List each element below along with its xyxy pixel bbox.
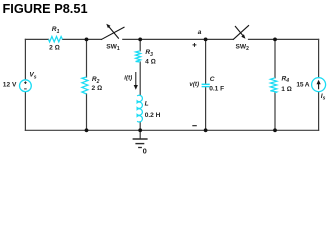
svg-text:0.1 F: 0.1 F — [209, 86, 224, 93]
svg-text:15 A: 15 A — [296, 82, 309, 89]
svg-text:12 V: 12 V — [3, 81, 17, 88]
svg-text:R3: R3 — [145, 49, 153, 58]
svg-text:0.2 H: 0.2 H — [145, 112, 161, 119]
svg-text:2 Ω: 2 Ω — [92, 85, 103, 92]
svg-text:L: L — [145, 101, 149, 108]
svg-text:1 Ω: 1 Ω — [281, 86, 292, 93]
svg-text:SW2: SW2 — [236, 44, 250, 53]
svg-text:R4: R4 — [282, 75, 290, 84]
svg-text:Vs: Vs — [29, 72, 36, 81]
svg-text:2 Ω: 2 Ω — [49, 45, 60, 52]
svg-text:FIGURE P8.51: FIGURE P8.51 — [3, 1, 88, 16]
svg-text:SW1: SW1 — [106, 44, 120, 53]
svg-text:C: C — [210, 76, 215, 83]
svg-text:0: 0 — [143, 147, 147, 156]
svg-text:R1: R1 — [52, 26, 60, 35]
svg-text:i(t): i(t) — [124, 75, 132, 82]
svg-text:R2: R2 — [92, 76, 100, 85]
svg-text:4 Ω: 4 Ω — [145, 59, 156, 66]
svg-text:a: a — [198, 29, 202, 36]
svg-text:v(t): v(t) — [189, 81, 199, 88]
svg-text:Is: Is — [321, 93, 326, 102]
